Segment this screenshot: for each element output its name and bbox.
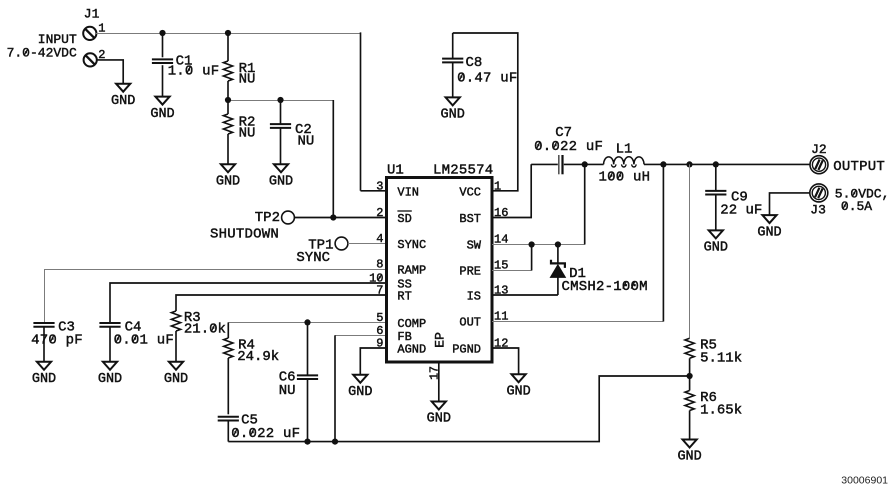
svg-text:0.022 uF: 0.022 uF — [231, 426, 300, 442]
svg-text:IS: IS — [467, 290, 481, 304]
wire SW node to L1 — [585, 163, 604, 165]
svg-text:5.11k: 5.11k — [700, 351, 742, 367]
svg-text:7: 7 — [376, 284, 383, 298]
svg-text:GND: GND — [677, 450, 701, 465]
svg-text:30006901: 30006901 — [841, 475, 888, 487]
capacitor C7 — [531, 125, 603, 174]
svg-text:SW: SW — [467, 239, 482, 253]
svg-text:LM25574: LM25574 — [433, 162, 493, 178]
svg-text:J1: J1 — [84, 7, 100, 22]
svg-text:GND: GND — [150, 107, 174, 122]
svg-text:100 uH: 100 uH — [599, 169, 651, 185]
resistor R3 — [171, 310, 226, 362]
wire output node down to R5 — [689, 164, 691, 338]
capacitor C3 — [31, 319, 83, 361]
wire BST pin 16 to C7 — [492, 164, 531, 217]
svg-text:GND: GND — [427, 412, 451, 427]
ground (J3) — [757, 215, 781, 240]
connector J2 OUTPUT — [810, 142, 885, 175]
svg-text:VIN: VIN — [397, 186, 419, 200]
svg-text:0.5A: 0.5A — [841, 199, 872, 214]
svg-text:TP2: TP2 — [255, 210, 280, 226]
svg-text:470 pF: 470 pF — [31, 333, 83, 349]
wire TP1 to SYNC pin 4 — [348, 243, 387, 245]
svg-text:GND: GND — [216, 175, 240, 190]
capacitor C5 — [218, 413, 301, 442]
wire IS pin 13 to D1 anode — [492, 294, 558, 296]
wire EP pin 17 to ground — [438, 364, 440, 402]
junction SW/D1 branch — [555, 241, 561, 247]
capacitor C6 — [279, 322, 318, 441]
wire node down to SD junction — [332, 100, 334, 218]
wire COMP pin 5 — [228, 322, 386, 324]
resistor R5 — [685, 337, 742, 376]
pin stub VIN pin 3 — [361, 190, 387, 192]
wire VCC pin 1 to C8 — [453, 33, 518, 191]
op-amp U1 LM25574 body — [387, 178, 493, 363]
resistor R4 — [224, 322, 280, 414]
svg-text:GND: GND — [164, 372, 188, 387]
capacitor C2 — [270, 100, 314, 164]
wire RAMP pin 8 to C3 — [45, 270, 387, 323]
svg-text:EP: EP — [432, 332, 447, 348]
svg-text:24.9k: 24.9k — [237, 349, 279, 365]
ground (C4) — [98, 362, 122, 387]
svg-text:2: 2 — [376, 206, 383, 220]
svg-text:PRE: PRE — [459, 265, 481, 279]
junction R5/R6 feedback — [687, 373, 693, 379]
svg-text:RT: RT — [397, 290, 411, 304]
ground (C8) — [441, 97, 465, 122]
wire J1-2 to GND — [97, 60, 123, 84]
capacitor C4 — [99, 319, 174, 361]
wire FB down to feedback rail — [334, 335, 336, 441]
test point TP2 — [210, 210, 294, 242]
junction FB/feedback rail — [332, 439, 338, 445]
capacitor C9 — [705, 164, 762, 230]
wire SW up to L1 node — [584, 164, 586, 244]
svg-text:SYNC: SYNC — [397, 238, 426, 252]
svg-text:PGND: PGND — [452, 343, 481, 357]
connector J3 — [810, 184, 890, 218]
ground (R2) — [216, 164, 240, 189]
svg-text:22 uF: 22 uF — [720, 203, 762, 219]
label INPUT 7.0-42VDC — [7, 32, 77, 61]
svg-text:GND: GND — [32, 372, 56, 387]
svg-text:RAMP: RAMP — [397, 264, 426, 278]
svg-text:L1: L1 — [616, 141, 633, 157]
junction input/R1 — [225, 30, 231, 36]
resistor R1 — [223, 33, 255, 100]
junction COMP/C6 — [304, 319, 310, 325]
svg-text:GND: GND — [269, 175, 293, 190]
svg-text:C8: C8 — [466, 55, 483, 71]
wire PRE pin 15 — [492, 270, 532, 272]
capacitor C8 — [442, 33, 517, 97]
connector J1 pin 2 — [84, 53, 97, 66]
svg-text:8: 8 — [376, 258, 383, 272]
junction SD node — [330, 214, 336, 220]
wire OUT pin 11 — [492, 321, 663, 323]
svg-text:GND: GND — [98, 372, 122, 387]
svg-text:OUTPUT: OUTPUT — [833, 159, 885, 175]
svg-text:GND: GND — [441, 108, 465, 123]
ground (EP) — [427, 402, 451, 427]
svg-text:3: 3 — [376, 180, 383, 194]
svg-text:0.01 uF: 0.01 uF — [114, 333, 174, 349]
svg-text:4: 4 — [376, 232, 383, 246]
svg-text:5: 5 — [376, 311, 383, 325]
ground (J1-2) — [111, 84, 135, 109]
inductor L1 — [599, 141, 651, 185]
svg-text:NU: NU — [239, 71, 256, 87]
svg-text:BST: BST — [459, 212, 481, 226]
svg-text:NU: NU — [298, 134, 315, 150]
ground (AGND) — [348, 375, 372, 400]
svg-text:AGND: AGND — [397, 343, 426, 357]
junction C2 top — [277, 97, 283, 103]
pin SD (active low) — [397, 211, 411, 226]
junction R2 top — [225, 97, 231, 103]
svg-text:GND: GND — [757, 225, 781, 240]
svg-text:VCC: VCC — [459, 186, 481, 200]
wire OUT up to output node — [662, 164, 664, 321]
wire AGND pin 9 to ground — [360, 348, 386, 375]
svg-text:1.0 uF: 1.0 uF — [168, 64, 220, 80]
wire FB pin 6 — [335, 335, 387, 337]
svg-text:GND: GND — [348, 385, 372, 400]
svg-text:SYNC: SYNC — [296, 250, 330, 266]
svg-text:0.47 uF: 0.47 uF — [457, 71, 517, 87]
capacitor C1 — [152, 33, 220, 97]
ground (C3) — [32, 362, 56, 387]
svg-text:0.022 uF: 0.022 uF — [534, 139, 603, 155]
svg-text:GND: GND — [704, 241, 728, 256]
junction output/OUT sense — [660, 161, 666, 167]
svg-text:1.65k: 1.65k — [700, 403, 742, 419]
svg-text:COMP: COMP — [397, 317, 426, 331]
wire input rail (J1-1 to VIN corner) — [96, 33, 361, 35]
junction output/C9 — [713, 161, 719, 167]
svg-text:NU: NU — [279, 383, 296, 399]
svg-text:SHUTDOWN: SHUTDOWN — [210, 227, 279, 243]
wire R1-R2-C2 node — [228, 100, 333, 102]
wire J3 to ground — [770, 193, 810, 215]
wire feedback rail (bottom) — [228, 376, 689, 442]
ground (C9) — [704, 230, 728, 255]
svg-text:J3: J3 — [810, 202, 826, 217]
wire RT pin 7 to R3 — [176, 295, 387, 311]
svg-text:9: 9 — [376, 337, 383, 351]
wire input rail vertical (down to VIN) — [360, 32, 362, 190]
ground (R6) — [677, 440, 701, 465]
ground (C2) — [269, 164, 293, 189]
wire output rail (L1 to J2) — [644, 163, 810, 165]
svg-text:NU: NU — [239, 126, 256, 142]
connector J1 pin 1 — [83, 27, 96, 40]
svg-text:21.0k: 21.0k — [184, 322, 226, 338]
junction input/C1 — [159, 30, 165, 36]
test point TP1 — [296, 237, 348, 266]
ground (R3) — [164, 362, 188, 387]
svg-text:U1: U1 — [387, 162, 404, 178]
ground (PGND) — [506, 374, 530, 399]
resistor R2 — [223, 100, 255, 164]
wire TP2 to SD pin 2 — [294, 217, 386, 219]
svg-text:J2: J2 — [811, 142, 827, 157]
svg-text:GND: GND — [111, 94, 135, 109]
ground (C1) — [150, 97, 174, 122]
diode D1 CMSH2-100M — [550, 245, 647, 296]
resistor R6 — [685, 376, 742, 440]
junction C7/L1/SW — [582, 161, 588, 167]
wire SW pin 14 — [492, 244, 585, 246]
svg-text:7.0-42VDC: 7.0-42VDC — [7, 46, 77, 61]
svg-text:SD: SD — [397, 212, 411, 226]
junction C6/feedback rail — [304, 439, 310, 445]
junction output/R5 — [686, 161, 692, 167]
wire PGND pin 12 to ground — [492, 348, 519, 374]
svg-text:GND: GND — [506, 385, 530, 400]
svg-text:CMSH2-100M: CMSH2-100M — [562, 279, 648, 295]
wire PRE up to SW — [531, 245, 533, 271]
wire SS pin 10 to C4 — [110, 283, 387, 322]
junction SW/PRE branch — [529, 241, 535, 247]
svg-text:OUT: OUT — [459, 316, 481, 330]
